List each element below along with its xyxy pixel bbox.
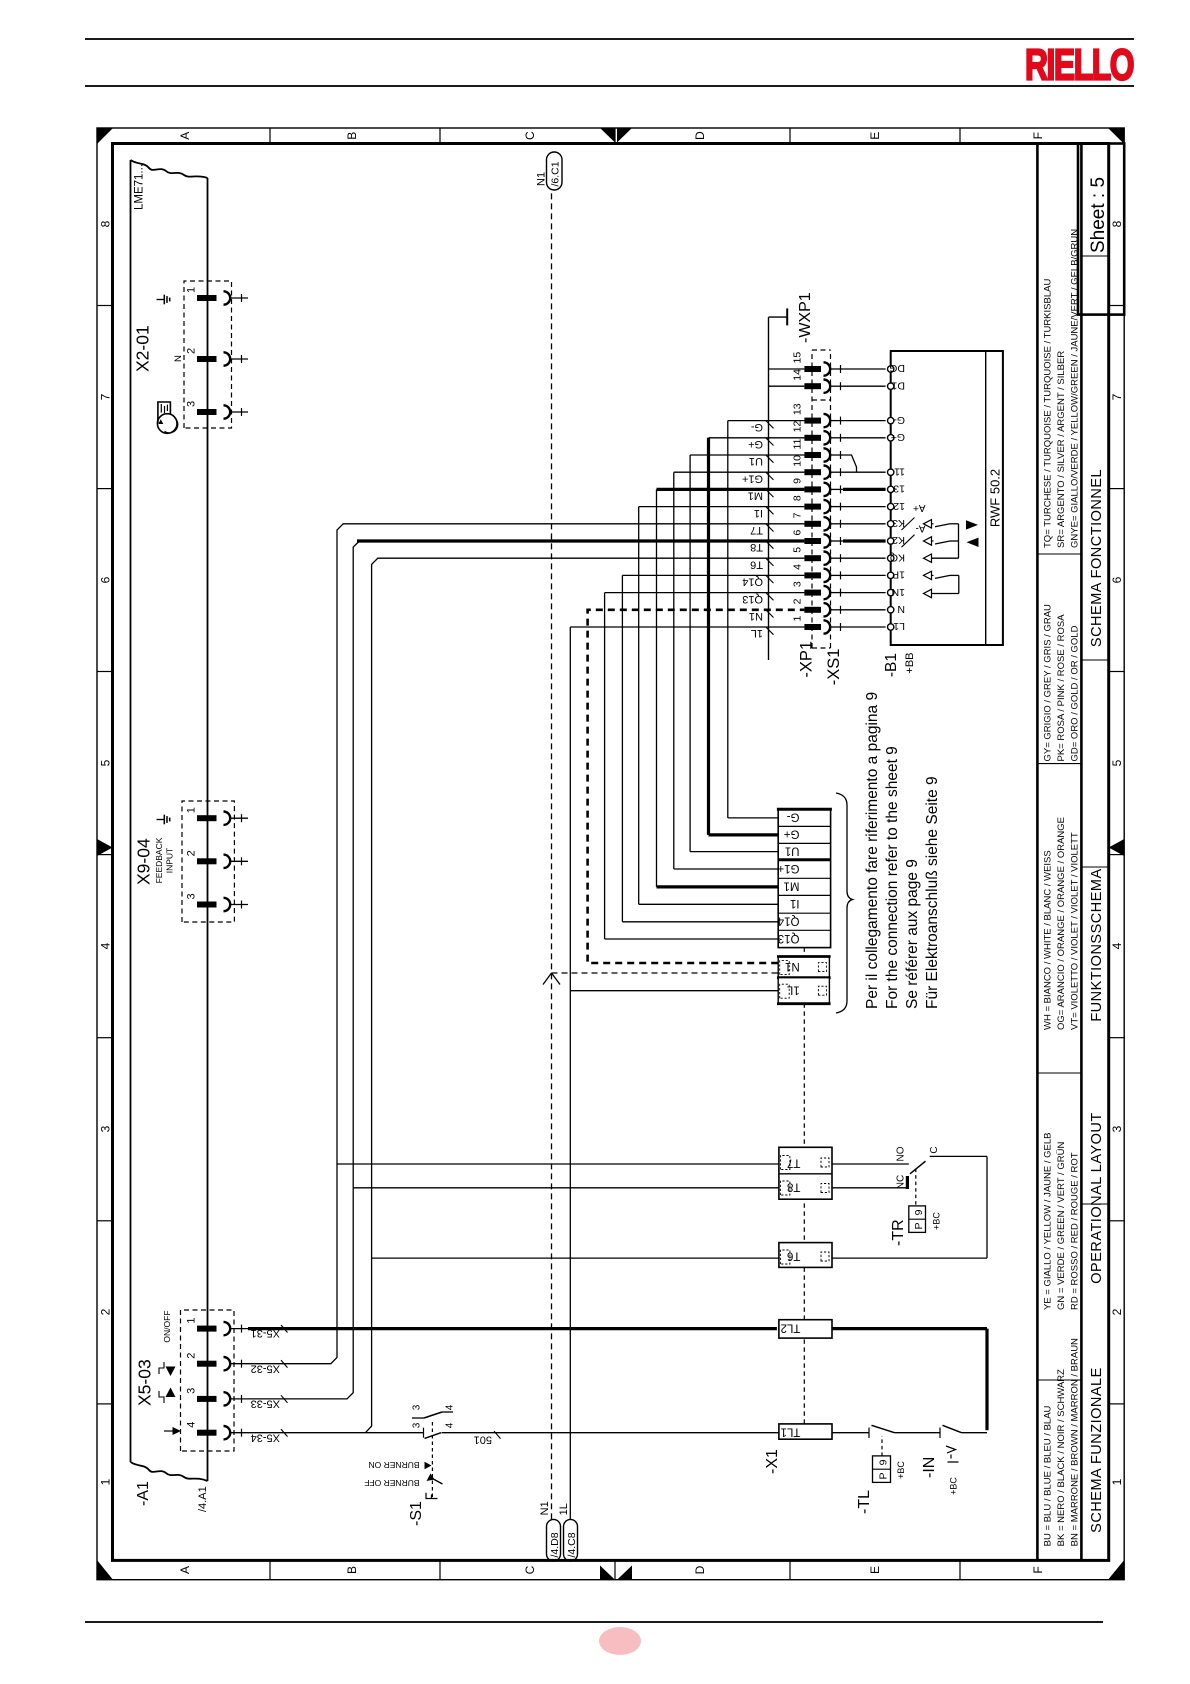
pin 2 socket contact arc (224, 855, 231, 868)
svg-text:T7: T7 (787, 1157, 800, 1169)
stack bold divider (778, 858, 830, 861)
RWF terminal 13 (888, 486, 894, 492)
svg-text:-TL: -TL (856, 1490, 873, 1514)
svg-text:BU = BLU / BLUE / BLEU / BLAU: BU = BLU / BLUE / BLEU / BLAU (1043, 1405, 1054, 1546)
wire T6 drop to terminal box (372, 1257, 779, 1259)
svg-text:4: 4 (1110, 942, 1124, 949)
destination flag /6.C1 (547, 152, 563, 190)
connector XP1 pin 15 (804, 366, 821, 372)
pin 1 socket contact arc (224, 291, 231, 304)
connector XP1 pin 14 (804, 383, 821, 389)
corner mark bottom-left (1108, 1560, 1124, 1580)
svg-text:12: 12 (893, 500, 905, 512)
svg-text:15: 15 (792, 352, 804, 364)
svg-text:X2-01: X2-01 (133, 325, 153, 372)
svg-text:RWF 50.2: RWF 50.2 (988, 469, 1003, 527)
svg-text:7: 7 (792, 512, 804, 518)
pin 4 plug contact bar (197, 1430, 217, 1436)
svg-text:X9-04: X9-04 (134, 838, 154, 885)
drawing frame inner border (113, 144, 1109, 1561)
svg-text:T6: T6 (787, 1249, 800, 1261)
svg-text:+BB: +BB (904, 652, 916, 673)
wire net Q13 (605, 592, 805, 594)
svg-text:DG: DG (889, 362, 905, 374)
connector XP1 pin 4 (804, 572, 821, 578)
IN release symbol (948, 1455, 959, 1463)
svg-text:M1: M1 (748, 490, 763, 502)
svg-text:SCHEMA FUNZIONALE: SCHEMA FUNZIONALE (1089, 1367, 1105, 1533)
svg-text:U1: U1 (785, 844, 800, 856)
wire net X5-31 / TL2 bold (248, 1327, 777, 1330)
centre fold mark right strip (600, 128, 615, 143)
corner mark top-right (97, 128, 113, 144)
svg-text:SR= ARGENTO / SILVER / ARGENT: SR= ARGENTO / SILVER / ARGENT / SILBER (1056, 351, 1067, 548)
svg-text:F: F (1031, 1566, 1045, 1573)
svg-text:Q14: Q14 (777, 915, 799, 927)
pin 3 plug contact bar (197, 409, 217, 415)
LME71 box left break edge (131, 1462, 208, 1481)
svg-text:4: 4 (186, 1422, 198, 1428)
pin 2 stub (230, 860, 248, 862)
RWF internal contact 1N (924, 589, 932, 597)
svg-text:BK = NERO / BLACK / NOIR / SCH: BK = NERO / BLACK / NOIR / SCHWARZ (1056, 1369, 1067, 1546)
centre fold mark left strip (600, 1566, 615, 1580)
svg-text:2: 2 (99, 1308, 113, 1315)
thermostat TR changeover contact (910, 1161, 926, 1174)
svg-text:K2: K2 (892, 534, 905, 546)
connector XP1 pin 3 (804, 590, 821, 596)
wire N1 branch to terminal cell (552, 972, 779, 974)
svg-text:+BC: +BC (932, 1212, 942, 1230)
svg-text:3: 3 (1110, 1125, 1124, 1132)
pulse symbol above X5-03 pin 3 (159, 1391, 164, 1403)
connector X2-01 dashed outline (184, 281, 232, 428)
stack cell dividers (778, 929, 830, 931)
pin 1 socket contact arc (224, 812, 231, 825)
wire net M1 (657, 488, 805, 491)
svg-text:N1: N1 (539, 1501, 551, 1515)
pin 3 stub (230, 904, 248, 906)
svg-text:1P: 1P (892, 569, 905, 581)
pin 3 socket contact arc (224, 405, 231, 418)
svg-text:For the connection refer to th: For the connection refer to the sheet 9 (884, 746, 901, 1009)
svg-text:+BC: +BC (896, 1461, 906, 1479)
pin 4 stub (230, 1432, 248, 1434)
chevron on N1 net (543, 973, 552, 985)
connector XP1 pin 9 (804, 486, 821, 492)
wire net T8 (248, 541, 359, 1399)
fan symbol above X2-01 pin 3 (157, 414, 177, 434)
RWF terminal 1N (888, 589, 894, 595)
switch S1 linkage dashed (431, 1421, 433, 1497)
svg-text:WH = BIANCO / WHITE / BLANC /: WH = BIANCO / WHITE / BLANC / WEISS (1043, 850, 1054, 1030)
connector XP1 pin 8 (804, 504, 821, 510)
svg-text:E: E (868, 132, 882, 140)
svg-text:A+: A+ (913, 502, 926, 513)
connector XP1 pin 12 (804, 435, 821, 441)
wire net G1+ (674, 471, 805, 473)
terminal strip mechanical dashed line (803, 948, 805, 1424)
svg-text:14: 14 (792, 369, 804, 381)
switch S1 BURNER ON arrow (425, 1462, 432, 1469)
title block legend top line (1036, 144, 1039, 1561)
svg-text:6: 6 (99, 576, 113, 583)
svg-text:GN = VERDE / GREEN / VERT / GR: GN = VERDE / GREEN / VERT / GRÜN (1056, 1142, 1067, 1310)
svg-text:Per il collegamento fare rifer: Per il collegamento fare riferimento a p… (864, 692, 881, 1009)
svg-text:1: 1 (99, 1478, 113, 1485)
switch S1 main contact 3-4 (423, 1428, 425, 1438)
contact TL (868, 1428, 870, 1439)
wire net Q14 (622, 574, 804, 576)
pin 1 stub (230, 1328, 248, 1330)
burner control LME71 box -A1 top edge (130, 160, 132, 1462)
RWF terminal 12 (888, 503, 894, 509)
logo RIELLO (1020, 40, 1145, 88)
svg-text:TQ= TURCHESE / TURQUOISE / TUR: TQ= TURCHESE / TURQUOISE / TURQUOISE / T… (1043, 279, 1054, 548)
RWF terminal D1 (888, 383, 894, 389)
svg-text:4: 4 (792, 564, 804, 570)
svg-text:GD= ORO / GOLD / OR / GOLD: GD= ORO / GOLD / OR / GOLD (1069, 625, 1080, 761)
svg-text:X5-03: X5-03 (135, 1359, 155, 1406)
connector X9-04 dashed outline (182, 801, 234, 922)
RWF terminal K2 (888, 538, 894, 544)
svg-text:M1: M1 (784, 880, 800, 892)
svg-text:N1: N1 (749, 610, 763, 622)
wire T8 to thermostat NC (832, 1187, 907, 1189)
TR linkage dashed (915, 1167, 917, 1205)
svg-text:5: 5 (1110, 759, 1124, 766)
RWF actuator direction close (967, 538, 979, 547)
wire net T6/TR loop (832, 1257, 987, 1259)
pin 1 plug contact bar (197, 295, 217, 301)
wire net T6 (248, 1432, 424, 1434)
terminal box TL2 (-X1) (779, 1320, 832, 1338)
svg-text:Für Elektroanschluß siehe Seit: Für Elektroanschluß siehe Seite 9 (924, 776, 941, 1009)
cable rail line WXP1 (768, 317, 770, 660)
legend column dividers (1037, 1379, 1081, 1381)
svg-text:3: 3 (186, 1388, 198, 1394)
svg-text:T6: T6 (750, 558, 763, 570)
svg-text:N: N (897, 603, 905, 615)
connector dashed outline XP1/XS1 (811, 350, 813, 648)
svg-text:6: 6 (792, 530, 804, 536)
svg-text:13: 13 (792, 403, 804, 415)
wire rail to pin 15 (769, 368, 805, 370)
svg-text:G-: G- (750, 421, 763, 433)
svg-text:KQ: KQ (890, 551, 905, 563)
terminal box N1 (778, 957, 829, 978)
svg-text:T8: T8 (787, 1181, 800, 1193)
svg-text:9: 9 (913, 1209, 925, 1215)
pin 2 plug contact bar (197, 858, 217, 864)
RWF terminal K3 (888, 521, 894, 527)
pin 3 socket contact arc (224, 898, 231, 911)
svg-text:K3: K3 (892, 517, 905, 529)
svg-text:1L: 1L (558, 1503, 570, 1515)
svg-text:L1: L1 (893, 620, 905, 632)
wire net G+ (709, 437, 805, 439)
svg-text:2: 2 (792, 598, 804, 604)
connector XP1 pin 11 (804, 452, 821, 458)
svg-text:10: 10 (792, 455, 804, 467)
svg-text:-X1: -X1 (764, 1449, 781, 1474)
pin 3 stub (230, 411, 248, 413)
svg-text:Q14: Q14 (742, 576, 763, 588)
wire U1 jog to terminal 11 (843, 455, 857, 472)
connector X5-03 dashed outline (181, 1310, 235, 1451)
connector XP1 pin 5 (804, 555, 821, 561)
svg-text:4: 4 (445, 1404, 456, 1410)
connector XP1 pin 7 (804, 521, 821, 527)
svg-text:1: 1 (186, 287, 198, 293)
svg-text:B: B (345, 132, 359, 140)
connector XP1 pin 10 (804, 469, 821, 475)
connector XP1 pin 6 (804, 538, 821, 544)
svg-text:TL2: TL2 (781, 1322, 801, 1334)
svg-text:BURNER ON: BURNER ON (368, 1460, 419, 1470)
svg-text:7: 7 (1110, 393, 1124, 400)
wire net T7 (248, 524, 804, 1364)
ground symbol above X9-04 pin 1 (157, 819, 165, 821)
svg-text:1: 1 (792, 616, 804, 622)
RWF internal contact K3 (924, 520, 932, 528)
svg-text:Q13: Q13 (742, 593, 763, 605)
svg-text:8: 8 (99, 220, 113, 227)
terminal K2 slash and A- (902, 535, 915, 548)
connector XP1 pin 13 (804, 418, 821, 424)
corner mark bottom-right (1108, 128, 1124, 144)
svg-text:3: 3 (412, 1422, 423, 1428)
RWF actuator direction open (966, 520, 978, 529)
frame row dividers right strip (269, 128, 271, 144)
wire net N1 dashed (551, 190, 553, 1519)
svg-text:5: 5 (99, 759, 113, 766)
terminal cell stack outline (778, 809, 830, 947)
svg-text:2: 2 (1110, 1308, 1124, 1315)
centre fold mark bottom strip (1109, 839, 1125, 856)
svg-text:11: 11 (792, 438, 804, 449)
wire T7 drop to terminal box (337, 1163, 779, 1165)
destination flag /4.C8 (564, 1519, 578, 1561)
svg-text:G1+: G1+ (777, 862, 799, 874)
frame row dividers left strip (269, 1560, 271, 1579)
svg-text:G+: G+ (891, 431, 905, 443)
arrow symbol above X5-03 pin 4 (164, 1430, 173, 1432)
svg-text:N1: N1 (785, 960, 800, 972)
terminal box T8/T7 (779, 1147, 832, 1199)
RWF internal contact KQ common (924, 554, 932, 562)
switch S1 BURNER OFF arrow (431, 1478, 443, 1485)
svg-text:/4.C8: /4.C8 (566, 1532, 578, 1557)
title block legend bottom line (1080, 144, 1083, 1561)
contact IN (939, 1428, 941, 1439)
controller RWF 50.2 box -B1 (891, 351, 1003, 645)
svg-text:B: B (345, 1566, 359, 1574)
RWF terminal DG (888, 366, 894, 372)
svg-text:D1: D1 (891, 379, 905, 391)
TR program box P9 (909, 1206, 926, 1233)
svg-text:OPERATIONAL LAYOUT: OPERATIONAL LAYOUT (1089, 1112, 1105, 1284)
terminal box TL1 (-X1) (779, 1424, 832, 1439)
svg-text:-WXP1: -WXP1 (797, 292, 814, 343)
pin 2 stub (230, 1363, 248, 1365)
svg-text:3: 3 (186, 893, 198, 899)
footer pink ellipse (599, 1627, 641, 1655)
RWF terminal L1 (888, 624, 894, 630)
svg-text:12: 12 (792, 420, 804, 432)
svg-text:OG= ARANCIO / ORANGE / ORANGE: OG= ARANCIO / ORANGE / ORANGE / ORANGE (1056, 817, 1067, 1030)
svg-text:D: D (693, 1565, 707, 1574)
drawing frame outer border (97, 128, 1124, 1580)
svg-text:G+: G+ (784, 828, 800, 840)
svg-text:2: 2 (186, 348, 198, 354)
svg-text:N1: N1 (536, 172, 548, 186)
svg-text:3: 3 (186, 401, 198, 407)
svg-text:VT= VIOLETTO / VIOLET / VIOLET: VT= VIOLETTO / VIOLET / VIOLET / VIOLETT (1069, 832, 1080, 1030)
svg-text:-IN: -IN (921, 1457, 938, 1478)
svg-text:E: E (868, 1566, 882, 1574)
pin 3 plug contact bar (197, 1396, 217, 1402)
svg-text:BURNER OFF: BURNER OFF (364, 1478, 419, 1488)
pin 2 stub (230, 358, 248, 360)
svg-text:-XS1: -XS1 (825, 649, 843, 686)
svg-text:I1: I1 (790, 897, 800, 909)
svg-text:FUNKTIONSSCHEMA: FUNKTIONSSCHEMA (1089, 868, 1105, 1021)
svg-text:501: 501 (474, 1433, 492, 1445)
burner control LME71 box -A1 bottom edge (207, 178, 209, 1481)
svg-text:BN = MARRONE / BROWN / MARRON: BN = MARRONE / BROWN / MARRON / BRAUN (1069, 1338, 1080, 1546)
svg-text:T7: T7 (750, 524, 763, 536)
pin 1 socket contact arc (224, 1322, 231, 1335)
svg-text:C: C (929, 1146, 940, 1153)
svg-text:Q13: Q13 (778, 932, 800, 944)
pin 1 stub (230, 297, 248, 299)
svg-text:7: 7 (99, 393, 113, 400)
TL program box P9 (873, 1456, 891, 1483)
svg-text:D: D (693, 131, 707, 140)
wire net I1 (639, 506, 805, 508)
wires XS1 to RWF terminals (843, 626, 886, 628)
pin 3 socket contact arc (224, 1392, 231, 1405)
svg-text:SCHEMA FONCTIONNEL: SCHEMA FONCTIONNEL (1089, 469, 1105, 647)
pin 2 plug contact bar (197, 356, 217, 362)
svg-text:/4.A1: /4.A1 (197, 1486, 209, 1512)
svg-text:5: 5 (792, 547, 804, 553)
header rule bottom (85, 85, 1134, 87)
svg-text:2: 2 (186, 1353, 198, 1359)
LME71 box right break edge (131, 160, 208, 178)
RWF internal contact 1P (924, 571, 932, 579)
stack bold right edge (777, 808, 832, 811)
switch S1 latch symbol (426, 1493, 438, 1499)
svg-text:3: 3 (412, 1404, 423, 1410)
pin 1 stub (230, 817, 248, 819)
svg-text:G1+: G1+ (742, 472, 763, 484)
pulse symbol above X5-03 pin 2 (159, 1362, 164, 1374)
terminal box T6 (779, 1243, 832, 1268)
svg-text:GY= GRIGIO / GREY / GRIS / GRA: GY= GRIGIO / GREY / GRIS / GRAU (1043, 604, 1054, 762)
svg-text:FEEDBACK: FEEDBACK (154, 837, 164, 883)
RWF terminal 1P (888, 572, 894, 578)
svg-text:1L: 1L (786, 984, 799, 996)
wire net G- (728, 420, 805, 422)
svg-text:-XP1: -XP1 (798, 641, 816, 678)
svg-text:N: N (173, 355, 184, 362)
centre fold mark top strip (97, 839, 113, 856)
wire 1L branch to terminal cell (570, 990, 778, 992)
svg-text:6: 6 (1110, 576, 1124, 583)
svg-text:Se référer aux page 9: Se référer aux page 9 (904, 859, 921, 1009)
wire TL1 below box (832, 1432, 869, 1434)
RWF terminal G- (888, 417, 894, 423)
svg-text:1: 1 (186, 807, 198, 813)
svg-text:ON/OFF: ON/OFF (162, 1310, 172, 1342)
svg-text:INPUT: INPUT (165, 848, 175, 874)
svg-text:9: 9 (792, 478, 804, 484)
svg-text:RD = ROSSO / RED / ROUGE / ROT: RD = ROSSO / RED / ROUGE / ROT (1069, 1152, 1080, 1310)
RWF terminal KQ (888, 555, 894, 561)
svg-text:P: P (878, 1472, 890, 1479)
RWF box divider (985, 351, 987, 645)
pin 1 plug contact bar (197, 815, 217, 821)
svg-text:+BC: +BC (949, 1477, 959, 1495)
RWF internal contact K2 (924, 537, 932, 545)
RWF terminal 11 (888, 469, 894, 475)
svg-text:YE = GIALLO / YELLOW / JAUNE /: YE = GIALLO / YELLOW / JAUNE / GELB (1043, 1133, 1054, 1311)
svg-text:4: 4 (99, 942, 113, 949)
svg-text:-A1: -A1 (135, 1481, 152, 1506)
pin 2 plug contact bar (197, 1361, 217, 1367)
title row dividers (1081, 1203, 1108, 1205)
svg-text:T8: T8 (750, 541, 763, 553)
terminal K3 slash and A+ (902, 518, 915, 531)
wire net U1 (690, 454, 804, 456)
svg-text:F: F (1031, 132, 1045, 139)
svg-text:-B1: -B1 (883, 653, 900, 677)
svg-text:/4.D8: /4.D8 (549, 1532, 561, 1557)
pin 4 socket contact arc (224, 1426, 231, 1439)
svg-text:1N: 1N (892, 586, 905, 598)
svg-text:4: 4 (445, 1422, 456, 1428)
pin 1 plug contact bar (197, 1326, 217, 1332)
svg-text:PK= ROSA / PINK / ROSE / ROSA: PK= ROSA / PINK / ROSE / ROSA (1056, 614, 1067, 762)
switch S1 second pole contact 3-4 (412, 1417, 424, 1419)
wire rail to pin 14 (769, 385, 805, 387)
svg-text:NC: NC (896, 1175, 907, 1189)
pin 3 stub (230, 1398, 248, 1400)
svg-text:1: 1 (186, 1317, 198, 1323)
svg-text:8: 8 (792, 495, 804, 501)
svg-text:TL1: TL1 (781, 1426, 801, 1438)
wire T8 drop to terminal box (353, 1187, 779, 1189)
wire S1 to TL1 (442, 1432, 779, 1434)
sheet number box (1078, 144, 1124, 315)
pin 2 socket contact arc (224, 352, 231, 365)
svg-text:-S1: -S1 (408, 1501, 425, 1526)
svg-text:1L: 1L (751, 627, 763, 639)
cable flag -WXP1 (769, 316, 788, 318)
svg-text:C: C (523, 131, 537, 140)
RWF terminal N (888, 607, 894, 613)
pin 2 socket contact arc (224, 1357, 231, 1370)
svg-text:3: 3 (99, 1125, 113, 1132)
corner mark top-left (97, 1560, 113, 1580)
svg-text:11: 11 (894, 465, 905, 477)
frame column dividers top strip (97, 1403, 113, 1405)
RWF terminal G+ (888, 435, 894, 441)
svg-text:9: 9 (878, 1459, 890, 1465)
brace under stack (836, 793, 853, 1013)
